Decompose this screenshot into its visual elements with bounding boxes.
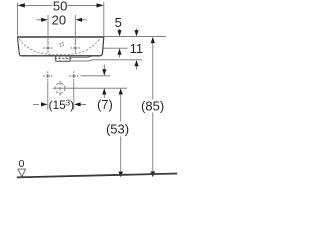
wire ref line overflow level bbox=[103, 47, 128, 49]
svg-text:(7): (7) bbox=[97, 97, 113, 112]
svg-text:(53): (53) bbox=[106, 122, 129, 137]
dimension 50 bbox=[18, 0, 104, 37]
svg-text:5: 5 bbox=[115, 15, 122, 30]
dimension 20 bbox=[37, 13, 87, 44]
svg-text:50: 50 bbox=[53, 0, 67, 13]
wire ref line trap level bbox=[68, 87, 127, 89]
dimension (7) bbox=[97, 65, 113, 113]
drain symbol bbox=[52, 81, 68, 96]
overflow hole bbox=[60, 43, 64, 47]
wire ref line rim level bbox=[104, 36, 166, 38]
svg-text:(153): (153) bbox=[48, 98, 74, 112]
wire basin underside hidden edge bbox=[71, 56, 94, 57]
basin outline bbox=[18, 37, 104, 56]
wire ref line fixing holes level bbox=[81, 75, 111, 77]
floor line bbox=[17, 174, 177, 178]
bowl hidden curve bbox=[19, 39, 100, 55]
tap hole left bbox=[43, 43, 52, 52]
svg-text:(85): (85) bbox=[141, 99, 164, 114]
wire ref line basin underside bbox=[70, 60, 142, 61]
svg-text:11: 11 bbox=[130, 41, 144, 56]
dimension (53) bbox=[106, 88, 129, 177]
svg-text:0: 0 bbox=[19, 158, 25, 170]
drain boss bbox=[54, 57, 71, 62]
dimension (85) bbox=[141, 37, 164, 177]
datum symbol bbox=[18, 169, 26, 177]
dimension 11 bbox=[130, 29, 144, 70]
dimension (15 3) bbox=[33, 82, 86, 112]
tap hole right bbox=[71, 43, 80, 52]
fixing hole right bbox=[69, 71, 78, 80]
fixing hole left bbox=[43, 71, 52, 80]
svg-text:20: 20 bbox=[52, 13, 66, 28]
dimension 5 bbox=[115, 15, 122, 58]
